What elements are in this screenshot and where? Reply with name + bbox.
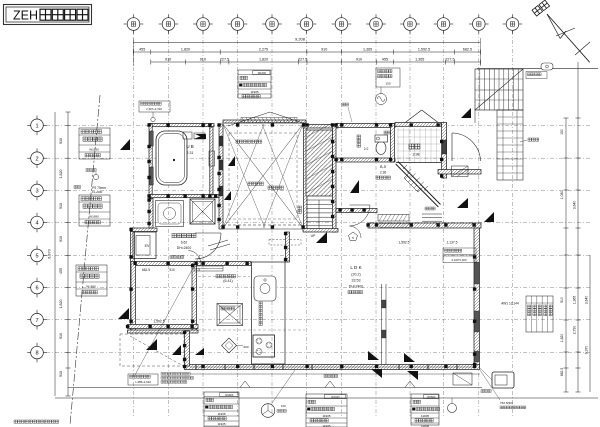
porch steps bbox=[422, 213, 442, 215]
svg-text:100: 100 bbox=[281, 404, 286, 408]
vanity with X bbox=[190, 199, 215, 224]
kitchen stove bbox=[253, 335, 275, 357]
toilet fixture bbox=[376, 142, 386, 155]
deck dashed line bbox=[130, 336, 185, 367]
terrace inner dashed rect bbox=[229, 133, 297, 219]
svg-text:910: 910 bbox=[59, 138, 63, 144]
svg-text:455: 455 bbox=[382, 57, 388, 61]
east boxed notes bbox=[443, 248, 476, 255]
genkan north wall bbox=[395, 123, 441, 127]
corridor west wall bbox=[149, 199, 153, 229]
svg-text:11905: 11905 bbox=[217, 412, 225, 416]
terrace south edge bbox=[223, 224, 303, 226]
shower fixtures bbox=[183, 132, 192, 139]
kitchen counter bbox=[252, 262, 286, 364]
bathtub bbox=[156, 131, 187, 185]
kitchen hood dashed box bbox=[269, 240, 301, 246]
terrace north wall bbox=[223, 120, 306, 123]
wc label bbox=[357, 135, 361, 139]
hall east wall bbox=[286, 232, 290, 262]
svg-text:1,137.5: 1,137.5 bbox=[447, 241, 458, 245]
bottom dimension line bbox=[68, 387, 482, 389]
ldk north wall bbox=[368, 223, 481, 228]
corner tiny text bbox=[14, 420, 17, 423]
svg-text:U B: U B bbox=[186, 144, 193, 149]
gate line north bbox=[477, 68, 598, 70]
stair bottom wall bbox=[303, 229, 338, 233]
terrace cross diagonals bbox=[223, 124, 303, 228]
entry door swing bbox=[452, 133, 481, 161]
ldk partition line bbox=[381, 284, 383, 364]
svg-text:DH=2400: DH=2400 bbox=[177, 246, 192, 250]
svg-text:W1690: W1690 bbox=[89, 215, 99, 219]
north note box bbox=[139, 101, 170, 112]
svg-text:227.5: 227.5 bbox=[298, 57, 307, 61]
svg-text:1,820: 1,820 bbox=[560, 334, 564, 343]
second window triangle pair bbox=[404, 353, 415, 362]
svg-text:1,385+2,610: 1,385+2,610 bbox=[135, 380, 151, 384]
title box ZEH bbox=[4, 5, 92, 25]
wc east wall bbox=[391, 124, 395, 163]
terrace labels bbox=[236, 140, 239, 143]
legend table top bbox=[238, 70, 271, 98]
stair block north wall bbox=[303, 125, 338, 129]
svg-text:DH=2400: DH=2400 bbox=[349, 285, 364, 289]
svg-text:762.5(90): 762.5(90) bbox=[500, 401, 513, 405]
porch grid connector bbox=[474, 110, 476, 123]
svg-text:682.5: 682.5 bbox=[463, 48, 472, 52]
genkan agarikamachi line bbox=[396, 162, 441, 164]
svg-text:W1600: W1600 bbox=[225, 393, 234, 397]
handrail strip bbox=[497, 110, 523, 180]
svg-text:3,640: 3,640 bbox=[585, 296, 589, 305]
svg-text:455: 455 bbox=[59, 268, 63, 274]
stair hatched square bbox=[306, 130, 333, 196]
washroom door swing bbox=[195, 233, 221, 259]
slope note text bbox=[161, 373, 164, 376]
step wall to south wall bbox=[185, 331, 190, 366]
svg-text:1,820: 1,820 bbox=[59, 300, 63, 309]
stair block east wall bbox=[333, 125, 337, 233]
kitchen door swing bbox=[188, 251, 200, 264]
svg-text:11905: 11905 bbox=[250, 90, 258, 94]
svg-text:6,370: 6,370 bbox=[585, 346, 589, 355]
ground vent circle bbox=[261, 404, 275, 418]
wall posts bbox=[147, 123, 150, 126]
wc south wall bbox=[336, 158, 395, 162]
svg-text:1,080: 1,080 bbox=[560, 191, 564, 200]
svg-text:EV: EV bbox=[145, 244, 150, 248]
svg-text:1: 1 bbox=[35, 123, 38, 129]
svg-text:6.62: 6.62 bbox=[181, 241, 188, 245]
washroom mid wall bbox=[135, 262, 251, 266]
site boundary line bbox=[70, 95, 100, 425]
bath east wall bbox=[210, 127, 213, 195]
terrace east wall bbox=[304, 124, 308, 229]
svg-text:2.36: 2.36 bbox=[380, 171, 387, 175]
south wall glazing line bbox=[190, 366, 474, 368]
svg-text:(20.2): (20.2) bbox=[351, 273, 360, 277]
svg-text:1,820: 1,820 bbox=[181, 48, 190, 52]
svg-text:9,208: 9,208 bbox=[295, 37, 306, 42]
west wall bath block bbox=[149, 124, 152, 199]
svg-text:910: 910 bbox=[560, 297, 564, 303]
EV box bbox=[133, 232, 156, 259]
svg-text:5: 5 bbox=[35, 254, 38, 260]
roof note right bbox=[480, 370, 500, 400]
svg-text:455: 455 bbox=[139, 48, 145, 52]
svg-text:7: 7 bbox=[35, 318, 38, 324]
svg-text:150: 150 bbox=[385, 82, 390, 86]
svg-text:662.5: 662.5 bbox=[142, 268, 150, 272]
svg-text:11905: 11905 bbox=[322, 414, 330, 418]
window west wall bath 2 bbox=[149, 167, 153, 185]
washer pan bbox=[156, 201, 184, 227]
svg-text:6: 6 bbox=[35, 286, 38, 292]
svg-text:910: 910 bbox=[59, 333, 63, 339]
handrail label bbox=[528, 138, 531, 141]
svg-text:3.98: 3.98 bbox=[413, 153, 420, 157]
stair steps bbox=[306, 199, 332, 201]
svg-text:3,640: 3,640 bbox=[573, 201, 577, 210]
small circle right bbox=[448, 404, 457, 413]
top grid bubbles bbox=[127, 18, 140, 31]
left table 1 bbox=[79, 128, 110, 159]
left grid bubbles bbox=[31, 119, 44, 132]
site distance note bbox=[128, 374, 158, 385]
kitchen sink bbox=[254, 276, 276, 301]
hatch band on diagonal bbox=[404, 173, 423, 192]
svg-text:W1600: W1600 bbox=[427, 395, 436, 399]
window below B-5 bbox=[378, 215, 409, 222]
svg-text:1,820: 1,820 bbox=[259, 57, 268, 61]
left dimension lines bbox=[67, 112, 69, 396]
deck dashed outline bbox=[120, 334, 184, 366]
step stones label bbox=[425, 207, 428, 210]
svg-text:1,365: 1,365 bbox=[363, 48, 372, 52]
exhaust fan symbol bbox=[376, 94, 387, 105]
svg-text:910: 910 bbox=[59, 203, 63, 209]
svg-text:2.31: 2.31 bbox=[187, 151, 194, 155]
bedroom west wall bbox=[131, 262, 136, 332]
gable over terrace bbox=[228, 112, 270, 126]
svg-text:910: 910 bbox=[321, 48, 327, 52]
svg-text:1,365: 1,365 bbox=[415, 57, 424, 61]
right of south wall box bbox=[453, 373, 472, 385]
svg-text:2,275: 2,275 bbox=[259, 48, 268, 52]
svg-text:33.53: 33.53 bbox=[352, 279, 361, 283]
svg-text:AW1 12,144: AW1 12,144 bbox=[501, 302, 519, 306]
svg-text:W1600: W1600 bbox=[331, 395, 340, 399]
top dimension lines bbox=[134, 42, 481, 44]
window below washroom wall bbox=[194, 266, 223, 271]
aw table bbox=[526, 296, 553, 332]
svg-text:682.5: 682.5 bbox=[560, 368, 564, 377]
grid lines bbox=[133, 31, 135, 416]
gate icon bbox=[541, 63, 553, 70]
svg-text:600: 600 bbox=[243, 345, 248, 349]
svg-text:2: 2 bbox=[35, 156, 38, 162]
svg-text:11905: 11905 bbox=[217, 422, 225, 426]
bedroom south wall bbox=[128, 325, 199, 329]
svg-text:910: 910 bbox=[59, 236, 63, 242]
window west wall bath 1 bbox=[149, 131, 153, 146]
svg-text:W1600: W1600 bbox=[258, 71, 267, 75]
genkan small note bbox=[384, 131, 387, 134]
svg-text:(6.41): (6.41) bbox=[223, 279, 232, 283]
right dimension lines bbox=[565, 118, 567, 392]
genkan tile grid bbox=[397, 128, 399, 163]
paper holder note bbox=[342, 103, 345, 106]
south terrace line bbox=[190, 373, 480, 375]
svg-text:L D K: L D K bbox=[350, 265, 362, 270]
svg-text:910: 910 bbox=[200, 57, 206, 61]
svg-text:11905: 11905 bbox=[421, 414, 429, 418]
svg-text:8: 8 bbox=[35, 351, 38, 357]
mid text small bbox=[324, 375, 327, 378]
svg-text:910: 910 bbox=[169, 268, 175, 272]
washroom north wall segment bbox=[131, 228, 158, 232]
laundry pole hatch bbox=[241, 118, 297, 123]
wc north wall bbox=[336, 124, 395, 128]
floor hatch square bbox=[217, 304, 243, 326]
gable over entrance door bbox=[406, 110, 422, 122]
porch south wall bbox=[438, 170, 481, 175]
genkan inner door swing bbox=[350, 205, 371, 226]
svg-text:4: 4 bbox=[35, 221, 38, 227]
north wall bath block bbox=[149, 124, 214, 127]
svg-text:2.0: 2.0 bbox=[364, 147, 369, 151]
washroom west wall bbox=[131, 228, 135, 331]
hall diagonal wall bbox=[396, 164, 439, 207]
B-5 south wall bbox=[336, 209, 377, 213]
bedroom east wall bbox=[192, 264, 197, 331]
svg-text:227.5: 227.5 bbox=[220, 57, 229, 61]
ne porch steps grid bbox=[475, 69, 523, 110]
pentagon marker bbox=[349, 232, 358, 241]
svg-text:150: 150 bbox=[560, 129, 564, 135]
svg-text:2,730: 2,730 bbox=[573, 326, 577, 335]
water heater bbox=[492, 372, 514, 388]
svg-text:ZEH: ZEH bbox=[13, 9, 38, 23]
svg-text:B-5: B-5 bbox=[380, 165, 386, 169]
svg-text:3: 3 bbox=[35, 189, 38, 195]
vent triangles bbox=[120, 139, 130, 150]
diamond vent bbox=[222, 338, 237, 353]
kitchen label rotated bbox=[259, 302, 262, 305]
gate label box bbox=[526, 72, 547, 79]
water tap label bbox=[481, 390, 484, 393]
svg-text:1,820: 1,820 bbox=[59, 170, 63, 179]
stair label bbox=[298, 206, 301, 209]
svg-text:1,365: 1,365 bbox=[573, 296, 577, 305]
svg-text:910: 910 bbox=[165, 57, 171, 61]
svg-text:227.5: 227.5 bbox=[445, 57, 454, 61]
svg-text:UP: UP bbox=[311, 234, 316, 238]
svg-text:1,592.5: 1,592.5 bbox=[418, 48, 430, 52]
svg-text:6,370: 6,370 bbox=[48, 249, 52, 259]
svg-text:W1690: W1690 bbox=[89, 148, 99, 152]
terrace west wall bbox=[219, 124, 223, 229]
kitchen dashed ceiling lines bbox=[198, 329, 305, 331]
washroom labels bbox=[172, 234, 176, 238]
exhaust fan label box bbox=[376, 68, 400, 87]
genkan east wall bbox=[442, 123, 447, 179]
bath door bbox=[209, 151, 215, 166]
south wall main bbox=[185, 365, 480, 370]
svg-text:910: 910 bbox=[356, 57, 362, 61]
bath south wall bbox=[149, 195, 219, 198]
svg-text:FL+900: FL+900 bbox=[92, 190, 103, 194]
east wall main bbox=[474, 228, 480, 368]
svg-text:2,407+2,310: 2,407+2,310 bbox=[146, 107, 162, 111]
washer tap circle bbox=[93, 174, 98, 179]
north arrow bbox=[532, 0, 550, 16]
svg-text:6,100*1,400: 6,100*1,400 bbox=[451, 258, 467, 262]
leader to corner bbox=[135, 255, 200, 375]
svg-text:910: 910 bbox=[59, 371, 63, 377]
svg-text:1,592.5: 1,592.5 bbox=[399, 241, 410, 245]
genkan label bbox=[409, 144, 414, 149]
svg-text:W1690: W1690 bbox=[86, 285, 96, 289]
